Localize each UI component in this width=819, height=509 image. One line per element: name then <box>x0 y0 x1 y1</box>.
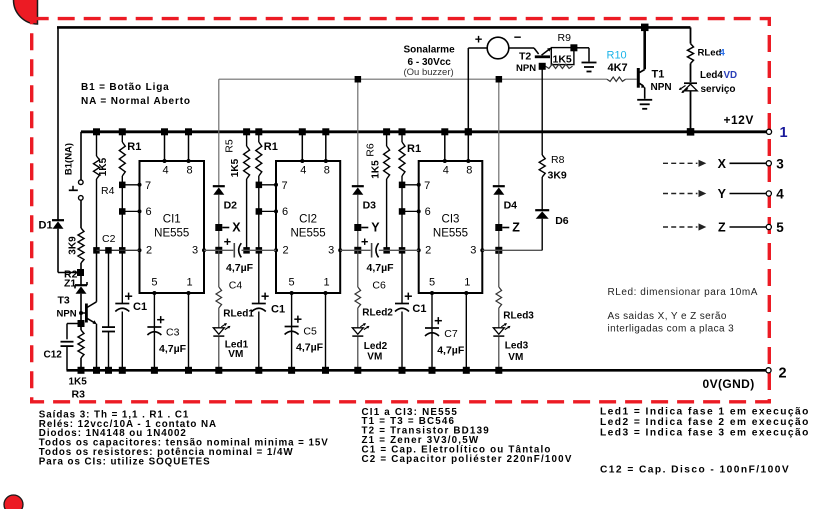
resistor RLed2 <box>357 250 359 287</box>
svg-text:4: 4 <box>162 165 168 177</box>
svg-text:VM: VM <box>228 349 243 360</box>
svg-text:R9: R9 <box>558 32 572 44</box>
wire B1 to R2 <box>80 200 82 228</box>
red dashed border frame <box>32 19 770 402</box>
svg-text:3K9: 3K9 <box>548 170 567 182</box>
wire R9 to ground <box>574 47 589 49</box>
wire Led4 to +12V rail <box>690 91 692 132</box>
CI2 pin 5 wire with cap <box>291 293 293 370</box>
CI3 pin 5 wire with cap <box>431 293 433 370</box>
output row Y terminal 4 <box>663 193 698 195</box>
svg-text:As saidas X, Y e Z serão: As saidas X, Y e Z serão <box>608 311 727 322</box>
CI1 pin 8 wire <box>188 132 190 161</box>
wire Z1 to T3 base <box>80 294 82 313</box>
svg-text:3: 3 <box>328 245 334 257</box>
junction top wire / T1 collector <box>641 24 649 32</box>
0V ground rail <box>67 369 767 372</box>
LED Led4 VD servico <box>684 82 697 84</box>
resistor R5 1K5 <box>246 132 248 146</box>
transistor T3 <box>79 311 83 315</box>
svg-text:NE555: NE555 <box>433 228 468 240</box>
svg-text:Led1 = Indica fase 1 em execuç: Led1 = Indica fase 1 em execução <box>600 407 810 418</box>
CI3 pin stub dots <box>443 159 447 163</box>
svg-text:Para os CIs: utilize SOQUETES: Para os CIs: utilize SOQUETES <box>39 456 211 467</box>
svg-text:3: 3 <box>470 245 476 257</box>
svg-text:C3: C3 <box>166 327 180 339</box>
resistor R3 1K5 <box>78 330 84 358</box>
svg-text:C12 = Cap. Disco - 100nF/100V: C12 = Cap. Disco - 100nF/100V <box>600 465 790 476</box>
svg-text:C5: C5 <box>303 326 317 338</box>
diode D2 <box>218 79 220 186</box>
svg-text:R3: R3 <box>72 389 86 401</box>
junction R9 top right <box>570 44 577 51</box>
svg-text:3K9: 3K9 <box>68 236 79 255</box>
CI2 pin 8 wire <box>325 132 327 161</box>
node X tap <box>218 195 220 251</box>
output row X terminal 3 <box>663 162 698 164</box>
op-amp/timer CI2 NE555 box <box>276 161 340 293</box>
CI1 pin 1 wire <box>188 293 190 370</box>
CI3 pin 4 wire <box>444 132 446 161</box>
wire pin2 line stage1 <box>97 249 140 251</box>
svg-text:D3: D3 <box>363 199 377 211</box>
svg-text:X: X <box>718 157 727 171</box>
svg-text:VM: VM <box>508 352 523 363</box>
wire output line CI1 pin3 to CI2 pin2 <box>204 249 233 251</box>
svg-text:R1: R1 <box>407 143 421 155</box>
capacitor C6 4,7uF (series) <box>371 243 373 258</box>
svg-text:T2: T2 <box>519 51 531 63</box>
svg-text:T3: T3 <box>58 295 70 307</box>
capacitor C4 4,7uF (series) <box>233 243 235 258</box>
svg-text:Y: Y <box>718 187 727 201</box>
svg-text:1: 1 <box>323 277 329 289</box>
svg-text:NPN: NPN <box>516 63 536 74</box>
ground symbol (T1) <box>637 99 652 101</box>
resistor RLed1 <box>218 250 220 287</box>
capacitor C1 of stage 1 <box>121 250 123 303</box>
svg-text:RLed1: RLed1 <box>223 309 254 320</box>
svg-text:7: 7 <box>281 180 287 192</box>
diode D4 <box>498 79 500 186</box>
svg-text:Led3: Led3 <box>505 341 529 352</box>
svg-text:3: 3 <box>776 157 784 172</box>
svg-text:Led2: Led2 <box>364 341 388 352</box>
op-amp/timer CI1 NE555 box <box>140 161 205 293</box>
svg-text:Z: Z <box>718 221 726 235</box>
svg-text:R6: R6 <box>365 143 377 157</box>
svg-text:1K5: 1K5 <box>98 157 109 176</box>
wire top rail (relay/alarm supply) <box>57 26 691 29</box>
junction sonalarme+/pin8 on rail <box>465 128 472 135</box>
wire output line CI3 pin3 to D6 <box>482 249 542 251</box>
red bottom-left corner logo <box>4 495 23 509</box>
svg-text:2: 2 <box>425 245 431 257</box>
diode D3 <box>357 79 359 186</box>
svg-text:R10: R10 <box>607 50 627 62</box>
CI3 pin 8 wire <box>467 132 469 161</box>
svg-text:3: 3 <box>192 245 198 257</box>
capacitor C1 of stage 2 <box>258 250 260 303</box>
svg-text:5: 5 <box>429 277 435 289</box>
junction Y on output line <box>354 247 361 254</box>
svg-text:6: 6 <box>282 206 288 218</box>
resistor R10 4K7 <box>607 77 626 81</box>
svg-text:NA = Normal Aberto: NA = Normal Aberto <box>81 96 191 107</box>
svg-text:interligadas com a placa 3: interligadas com a placa 3 <box>608 324 735 335</box>
svg-text:B1(NA): B1(NA) <box>64 143 75 175</box>
svg-text:Led3 = Indica fase 3 em execuç: Led3 = Indica fase 3 em execução <box>600 428 810 439</box>
ground symbol (R9) <box>582 62 597 64</box>
svg-text:R1: R1 <box>127 141 141 153</box>
capacitor C3 4,7uF <box>147 326 161 328</box>
svg-text:RLed: RLed <box>698 48 722 59</box>
svg-text:4,7µF: 4,7µF <box>437 345 465 357</box>
svg-text:+12V: +12V <box>724 113 754 127</box>
resistor R1 of stage 3 <box>401 132 403 142</box>
CI1 pin 4 wire <box>164 132 166 161</box>
svg-text:C2: C2 <box>102 233 116 245</box>
junction pin6 <box>256 208 263 215</box>
svg-text:1K5: 1K5 <box>553 54 572 66</box>
svg-text:Led2 = Indica fase 2 em execuç: Led2 = Indica fase 2 em execução <box>600 417 810 428</box>
red corner pie logo <box>14 0 38 24</box>
svg-text:−: − <box>514 30 522 45</box>
svg-text:D1: D1 <box>39 220 53 232</box>
junction pin6 <box>119 208 126 215</box>
diode D1 <box>52 219 64 221</box>
wire D6 to Z output line <box>541 219 543 251</box>
sonalarme buzzer symbol <box>487 37 509 59</box>
svg-text:T1: T1 <box>652 69 665 81</box>
svg-text:2: 2 <box>779 366 787 382</box>
wire left branch down to D1 <box>57 27 59 219</box>
svg-text:R8: R8 <box>551 154 565 166</box>
CI1 pin 5 wire with cap <box>153 293 155 370</box>
svg-text:1K5: 1K5 <box>230 158 241 177</box>
svg-text:+: + <box>475 32 483 47</box>
CI2 pin 4 wire <box>301 132 303 161</box>
svg-text:C1: C1 <box>271 304 285 316</box>
svg-text:X: X <box>232 220 241 234</box>
CI2 pin stub dots <box>300 159 304 163</box>
svg-text:1K5: 1K5 <box>371 160 382 179</box>
junction pin7 <box>399 182 406 189</box>
resistor R1 of stage 2 <box>258 132 260 142</box>
svg-text:D2: D2 <box>224 199 238 211</box>
diode D6 <box>535 209 549 211</box>
svg-text:4,7µF: 4,7µF <box>367 262 395 274</box>
svg-text:CI2: CI2 <box>299 214 317 226</box>
svg-text:6: 6 <box>425 206 431 218</box>
wire R2 to Z1 <box>80 263 82 285</box>
node junction D1/R2/Z1 <box>77 269 84 276</box>
svg-text:NPN: NPN <box>651 82 672 93</box>
wire T3 collector up to pin2 node <box>96 250 98 301</box>
junction pin7 <box>119 182 126 189</box>
junction T2 base <box>539 63 546 70</box>
svg-text:8: 8 <box>324 165 330 177</box>
op-amp/timer CI3 NE555 box <box>419 161 483 293</box>
svg-text:B1 = Botão Liga: B1 = Botão Liga <box>81 82 170 93</box>
svg-text:VD: VD <box>724 70 738 81</box>
svg-text:Sonalarme: Sonalarme <box>404 45 456 56</box>
junction bus/D4 column <box>496 76 503 83</box>
transistor T2 <box>534 48 539 54</box>
CI1 pin stub dots <box>163 159 167 163</box>
svg-text:4: 4 <box>300 165 306 177</box>
resistor R9 1K5 (boxed) <box>551 48 574 65</box>
wire T2 base down to R8 <box>541 66 543 155</box>
svg-text:C6: C6 <box>372 280 386 292</box>
+12V rail <box>81 130 767 133</box>
capacitor C2 column <box>105 247 112 254</box>
svg-text:6: 6 <box>145 206 151 218</box>
svg-text:C2 = Capacitor poliéster 220nF: C2 = Capacitor poliéster 220nF/100V <box>362 454 573 465</box>
LED Led3 VM <box>493 328 504 335</box>
junction X on output line <box>215 247 222 254</box>
transistor T1 <box>643 27 646 69</box>
svg-text:CI1: CI1 <box>163 214 181 226</box>
svg-text:4: 4 <box>720 48 726 59</box>
svg-text:D6: D6 <box>555 215 569 227</box>
resistor R6 1K5 <box>386 132 388 146</box>
svg-text:4,7µF: 4,7µF <box>159 343 187 355</box>
svg-text:Z: Z <box>512 220 520 234</box>
svg-text:8: 8 <box>186 165 192 177</box>
svg-text:1: 1 <box>464 277 470 289</box>
junction pin6 <box>399 208 406 215</box>
wire D1 to main left column <box>57 229 59 273</box>
svg-text:7: 7 <box>145 180 151 192</box>
svg-text:Z1: Z1 <box>64 278 76 290</box>
resistor R8 3K9 <box>539 155 545 177</box>
svg-text:1K5: 1K5 <box>69 377 88 388</box>
svg-text:D4: D4 <box>504 199 518 211</box>
svg-text:4: 4 <box>776 187 784 202</box>
svg-text:8: 8 <box>466 165 472 177</box>
svg-text:1: 1 <box>780 125 788 141</box>
svg-text:CI3: CI3 <box>442 214 460 226</box>
wire R8 to D6 <box>541 177 543 210</box>
svg-text:7: 7 <box>424 180 430 192</box>
svg-text:5: 5 <box>776 220 784 235</box>
LED Led2 VM <box>352 328 363 335</box>
svg-text:5: 5 <box>289 277 295 289</box>
switch B1 (NA) pushbutton <box>80 132 82 180</box>
svg-text:Y: Y <box>371 220 380 234</box>
wire T3 emitter down to 0V <box>96 324 98 371</box>
junction pin7 <box>256 182 263 189</box>
CI3 pin 1 wire <box>465 293 467 370</box>
svg-text:4,7µF: 4,7µF <box>226 262 254 274</box>
capacitor C12 <box>67 323 81 325</box>
resistor RLed4 <box>690 27 692 43</box>
svg-text:4: 4 <box>443 165 449 177</box>
resistor R2 3K9 <box>78 228 84 263</box>
node Z tap <box>498 195 500 251</box>
capacitor C7 4,7uF <box>425 327 439 329</box>
junction bus/D3 column <box>355 76 362 83</box>
svg-text:Led4: Led4 <box>700 70 723 81</box>
junction R3 at 0V <box>78 367 85 374</box>
svg-text:R1: R1 <box>264 141 278 153</box>
svg-text:RLed3: RLed3 <box>503 311 534 322</box>
junction T3 emitter at 0V <box>93 367 100 374</box>
svg-text:1: 1 <box>186 277 192 289</box>
wire alarm bus (gray) <box>219 78 607 80</box>
svg-text:R4: R4 <box>101 185 115 197</box>
svg-text:C4: C4 <box>229 280 243 292</box>
svg-text:VM: VM <box>367 352 382 363</box>
node Y tap <box>357 195 359 251</box>
svg-text:R5: R5 <box>224 139 236 153</box>
svg-text:4K7: 4K7 <box>608 62 628 74</box>
svg-text:NE555: NE555 <box>154 228 189 240</box>
output row Z terminal 5 <box>663 226 698 228</box>
resistor RLed3 <box>498 250 500 287</box>
junction T3 base / R3 / C12 <box>78 320 85 327</box>
svg-text:2: 2 <box>282 245 288 257</box>
svg-text:serviço: serviço <box>701 84 736 95</box>
svg-text:4,7µF: 4,7µF <box>296 342 324 354</box>
junction R1/pin2 line <box>399 247 406 254</box>
resistor R4 1K5 <box>96 132 98 156</box>
svg-text:0V(GND): 0V(GND) <box>703 377 755 391</box>
resistor R1 of stage 1 <box>121 132 123 142</box>
svg-text:RLed2: RLed2 <box>362 308 393 319</box>
CI2 pin 1 wire <box>325 293 327 370</box>
svg-text:C7: C7 <box>444 328 458 340</box>
svg-text:5: 5 <box>151 277 157 289</box>
svg-text:C12: C12 <box>44 350 63 361</box>
junction R1/pin2 line <box>256 247 263 254</box>
junction R1/pin2 line <box>119 247 126 254</box>
svg-text:NPN: NPN <box>57 309 77 320</box>
svg-text:(Ou buzzer): (Ou buzzer) <box>404 67 454 78</box>
wire sonalarme + to +12V rail <box>468 47 487 49</box>
capacitor C5 4,7uF <box>285 326 299 328</box>
wire sonalarme - to T2 collector <box>509 47 534 49</box>
svg-text:2: 2 <box>146 245 152 257</box>
junction Z on output line <box>495 247 502 254</box>
wire output line CI2 pin3 to CI3 pin2 <box>340 249 370 251</box>
capacitor C1 of stage 3 <box>401 250 403 303</box>
LED Led1 VM <box>213 328 224 335</box>
zener Z1 <box>75 284 87 286</box>
svg-text:C1: C1 <box>412 303 426 315</box>
svg-text:NE555: NE555 <box>291 228 326 240</box>
svg-text:RLed: dimensionar para 10mA: RLed: dimensionar para 10mA <box>608 287 758 298</box>
svg-text:C1: C1 <box>133 301 147 313</box>
